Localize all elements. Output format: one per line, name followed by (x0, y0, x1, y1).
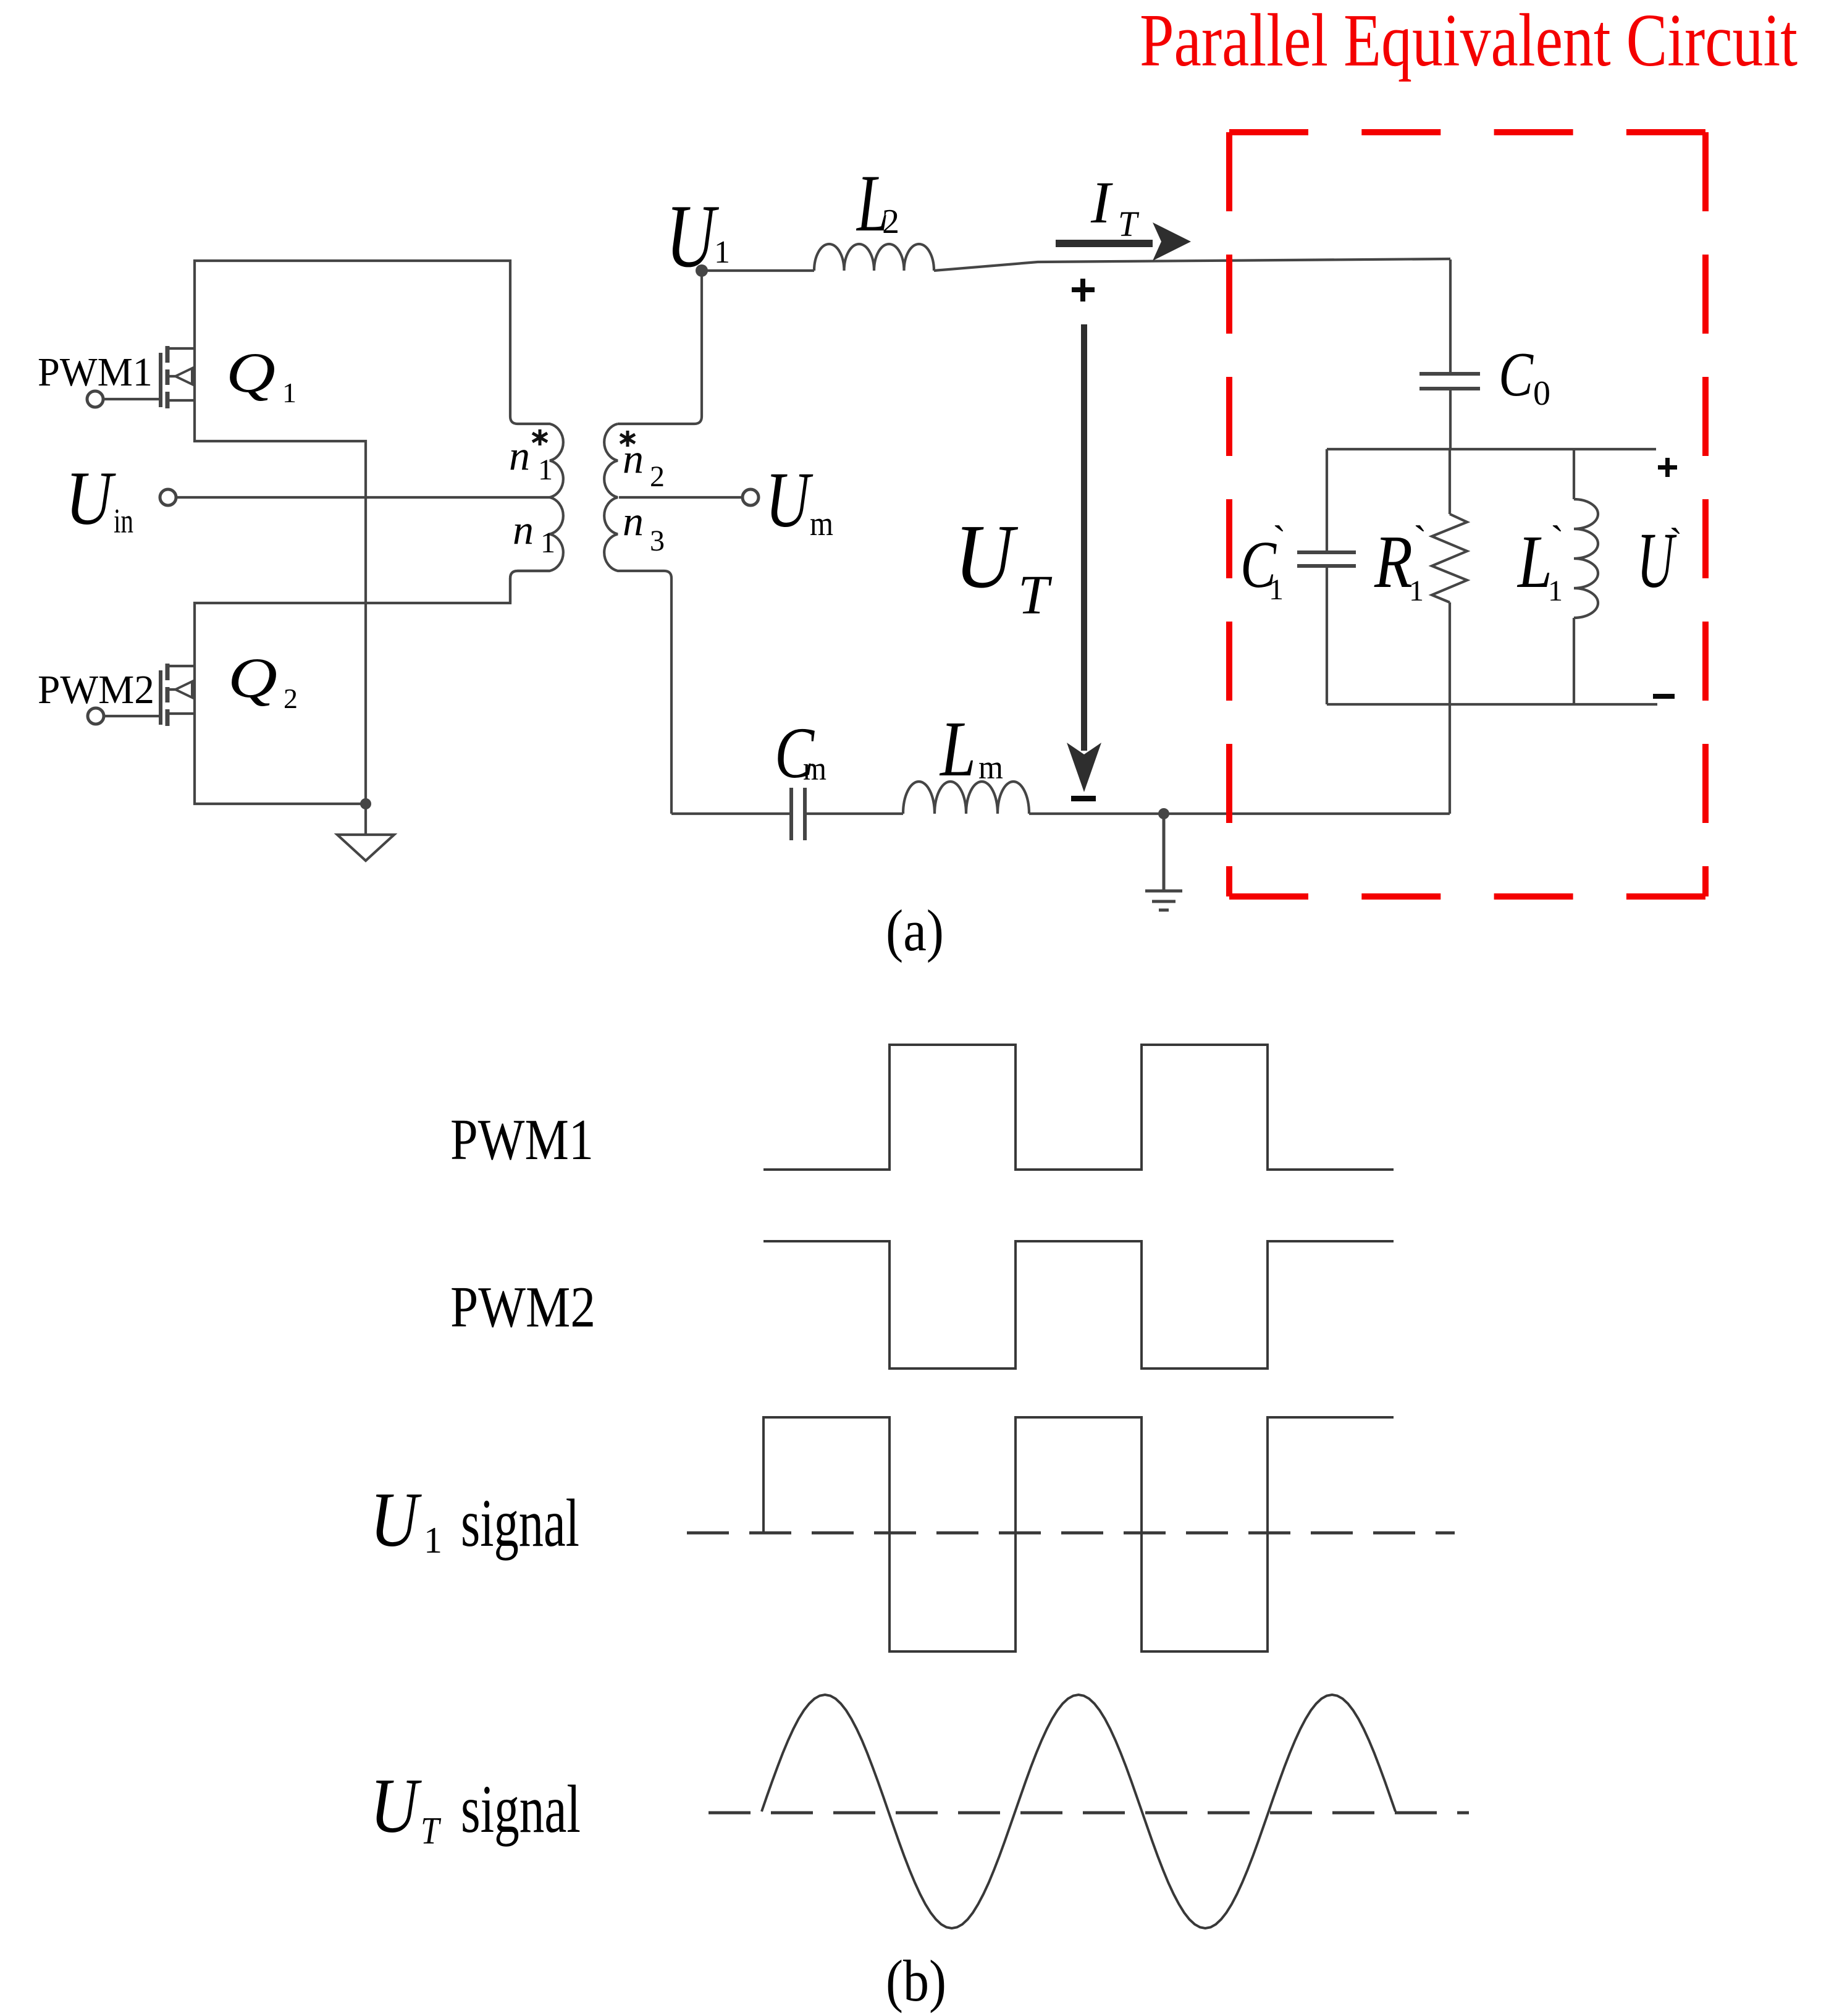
svg-text:T: T (1018, 565, 1053, 626)
label UT (954, 506, 1053, 626)
svg-text:`: ` (1669, 520, 1683, 565)
wire U1 down to secondary winding (618, 271, 702, 424)
label n1* (top primary) (509, 429, 553, 486)
svg-text:`: ` (1413, 518, 1427, 563)
svg-text:1: 1 (714, 235, 730, 270)
capacitor C0 (1419, 374, 1480, 389)
svg-text:m: m (978, 749, 1003, 786)
svg-text:n: n (509, 432, 530, 479)
zero line (dashed) for UT signal (709, 1811, 1469, 1815)
label + (UT top) (1072, 279, 1095, 302)
label Cm (775, 712, 826, 793)
resistor R1' (1432, 449, 1467, 704)
svg-text:U: U (954, 506, 1018, 607)
label U1 (666, 186, 730, 286)
label U' (1637, 517, 1683, 604)
svg-text:signal: signal (461, 1771, 581, 1847)
wire bottom rail n3 to Cm (671, 812, 791, 815)
svg-text:U: U (65, 456, 116, 541)
wire R branch to main bottom rail (1449, 704, 1451, 814)
svg-text:T: T (421, 1810, 442, 1852)
terminal Uin (160, 489, 176, 505)
waveform U1 signal (763, 1417, 1394, 1651)
wire bottom rail Lm to equivalent circuit (1029, 812, 1450, 815)
voltage arrow UT (downward) (1067, 324, 1101, 792)
node bottom rail junction dot (1158, 808, 1169, 819)
svg-text:1: 1 (424, 1520, 442, 1561)
svg-text:U: U (765, 456, 814, 544)
svg-text:Q: Q (228, 646, 277, 709)
label - (UT bottom) (1071, 796, 1096, 801)
label UT signal (370, 1763, 581, 1852)
transformer secondary winding n2*/n3 (604, 424, 671, 814)
svg-text:L: L (939, 705, 976, 793)
svg-text:`: ` (1550, 518, 1564, 563)
svg-text:Q: Q (226, 341, 275, 404)
wire U1 to L2 (702, 269, 814, 272)
label Um (765, 456, 833, 544)
label + (U' output) (1658, 458, 1677, 477)
svg-text:C: C (1499, 340, 1534, 410)
terminal Um (742, 489, 759, 505)
wire C0 top lead (1449, 259, 1452, 374)
transistor Q1 (87, 346, 195, 408)
svg-text:R: R (1374, 520, 1413, 604)
svg-text:PWM2: PWM2 (38, 667, 154, 712)
label n2* (top secondary) (620, 431, 665, 493)
svg-text:2: 2 (650, 460, 665, 493)
wire Q1 drain to transformer top (195, 261, 510, 416)
wire L2 to equivalent circuit (sloped) (934, 259, 1450, 271)
transformer primary winding n1*/n1 (510, 416, 563, 603)
svg-text:1: 1 (1409, 575, 1424, 607)
red dashed box Parallel Equivalent Circuit (1229, 132, 1705, 896)
label Lm (939, 705, 1003, 793)
svg-text:n: n (513, 506, 534, 553)
svg-text:1: 1 (1548, 575, 1563, 607)
ground (earth) on bottom rail (1145, 814, 1182, 910)
wire parallel block top rail (1327, 448, 1656, 450)
svg-text:0: 0 (1533, 374, 1550, 413)
wire Q2 drain to transformer primary bottom (195, 571, 550, 666)
label L1' (1516, 518, 1564, 607)
label Q2 (228, 646, 298, 714)
wire C0 to parallel block (1449, 389, 1452, 449)
svg-text:(a): (a) (886, 898, 944, 963)
svg-text:2: 2 (284, 683, 298, 714)
ground (triangle) under Q2 (337, 804, 394, 861)
label Uin (65, 456, 133, 541)
svg-text:U: U (370, 1763, 422, 1849)
capacitor C1' (1297, 449, 1356, 704)
wire Q2 source to ground junction (195, 714, 366, 804)
wire Uin to primary centre tap (176, 496, 550, 499)
svg-text:PWM2: PWM2 (450, 1275, 595, 1339)
label C0 (1499, 340, 1550, 413)
svg-text:T: T (1118, 204, 1140, 244)
svg-text:PWM1: PWM1 (450, 1108, 594, 1172)
label C1' (1240, 518, 1286, 606)
svg-text:3: 3 (650, 525, 665, 557)
svg-text:PWM1: PWM1 (38, 350, 153, 395)
node U1 dot (696, 264, 708, 277)
svg-text:L: L (1516, 520, 1552, 604)
label Q1 (226, 341, 296, 408)
svg-text:1: 1 (282, 377, 296, 408)
svg-text:2: 2 (882, 203, 899, 241)
svg-text:I: I (1090, 169, 1113, 235)
wire Cm to Lm (805, 812, 903, 815)
capacitor Cm (791, 788, 805, 840)
svg-text:U: U (370, 1477, 422, 1563)
inductor Lm (903, 782, 1029, 814)
waveform PWM1 (763, 1045, 1394, 1170)
transistor Q2 (88, 664, 195, 726)
node ground junction dot (360, 798, 371, 809)
svg-text:`: ` (1272, 518, 1286, 563)
svg-text:n: n (623, 497, 644, 544)
wire Q1 source to ground rail (195, 400, 366, 804)
waveform PWM2 (763, 1241, 1394, 1369)
label n1 (bottom primary) (513, 506, 555, 559)
label U1 signal (370, 1477, 579, 1563)
zero line (dashed) for U1 signal (687, 1532, 1455, 1535)
wire parallel block bottom rail (1327, 703, 1657, 706)
label - (U' output) (1653, 694, 1675, 699)
svg-text:m: m (810, 505, 833, 543)
label IT (1090, 169, 1140, 244)
inductor L2 (814, 244, 934, 271)
current arrow IT (1056, 222, 1191, 261)
waveform UT signal (sine) (762, 1695, 1395, 1928)
svg-text:signal: signal (461, 1485, 579, 1561)
wire secondary centre tap to Um terminal (619, 496, 742, 499)
svg-text:1: 1 (1269, 573, 1284, 606)
label L2 (856, 158, 899, 248)
svg-text:m: m (803, 750, 826, 787)
svg-text:1: 1 (538, 453, 553, 486)
svg-text:1: 1 (540, 526, 555, 559)
svg-text:(b): (b) (886, 1948, 946, 2014)
svg-text:Parallel Equivalent Circuit: Parallel Equivalent Circuit (1140, 0, 1798, 82)
label R1' (1374, 518, 1427, 607)
svg-text:in: in (114, 502, 133, 541)
inductor L1' (1574, 449, 1598, 704)
label n3 (bottom secondary) (623, 497, 665, 557)
